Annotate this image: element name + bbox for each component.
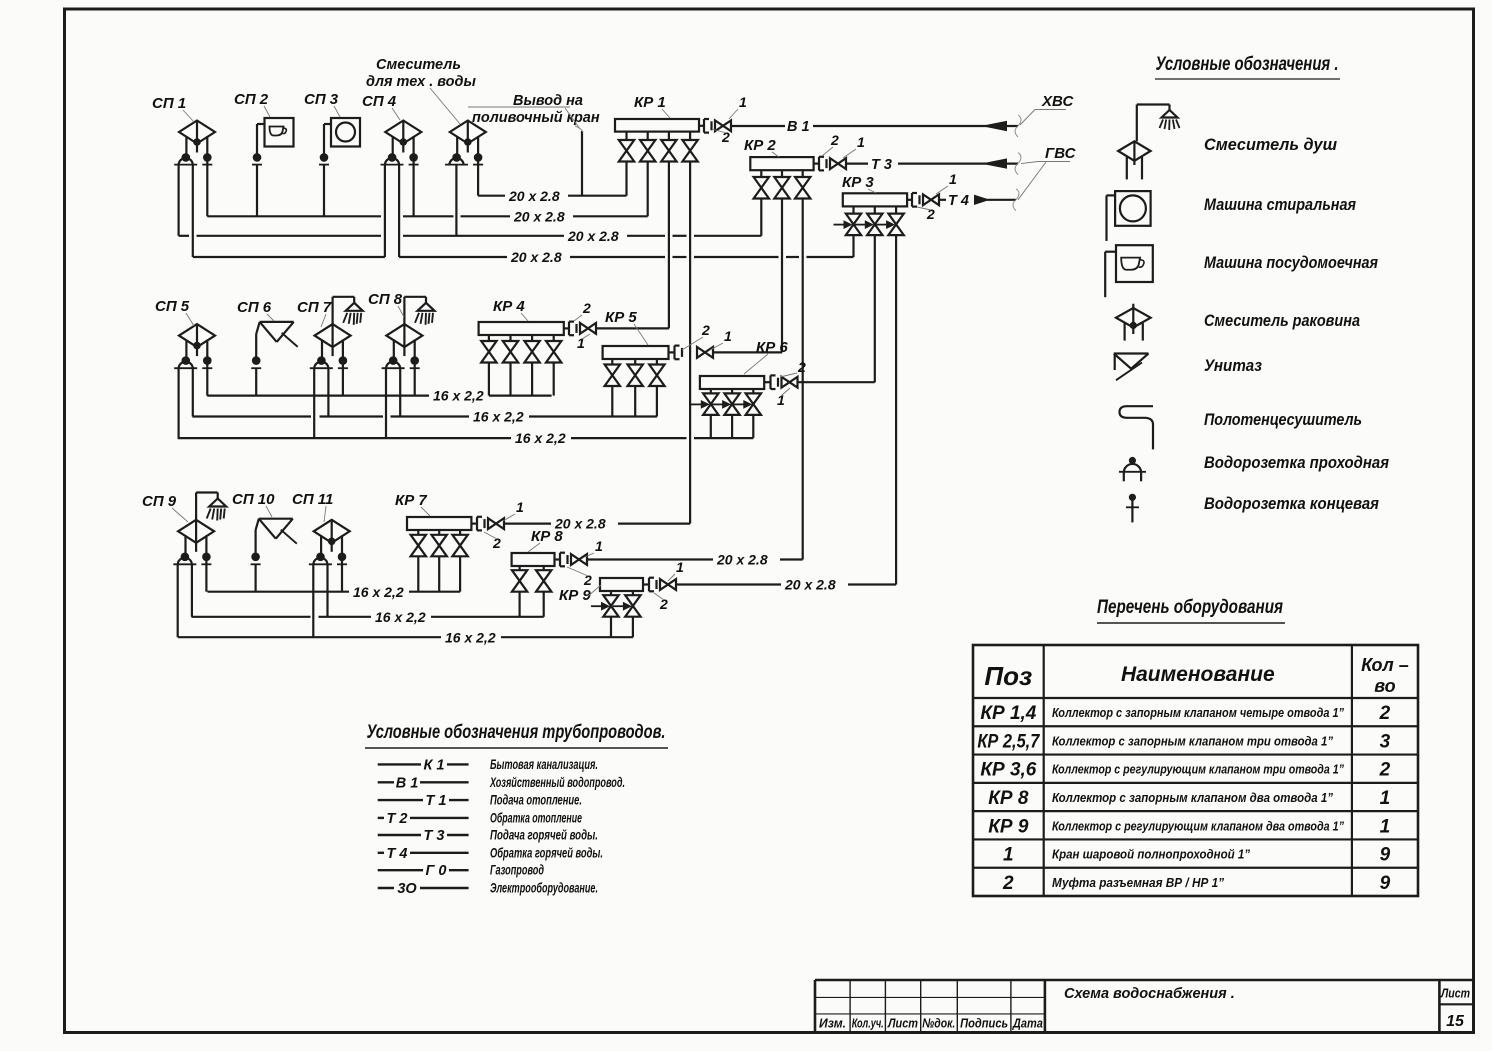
break mark T4: [1013, 189, 1019, 211]
svg-text:Смеситель: Смеситель: [376, 57, 461, 73]
fixture technical water mixer: [450, 121, 486, 144]
fixture SP5 sink mixer: [179, 324, 215, 347]
KR9 stubs to run3: [610, 617, 612, 637]
svg-text:16 х 2,2: 16 х 2,2: [515, 430, 566, 446]
pipe run 3 mid 16x2,2: [178, 437, 511, 439]
collector KR2: [750, 157, 813, 170]
riser KR1 stub1 to run1: [625, 162, 627, 196]
pipe run 1 bottom 16x2,2: [208, 591, 350, 593]
coupling 2 at KR5: [669, 351, 675, 353]
svg-text:Машина посудомоечная: Машина посудомоечная: [1204, 253, 1378, 272]
svg-text:Смеситель душ: Смеситель душ: [1204, 135, 1337, 154]
pipe SP3 to run2: [323, 165, 325, 217]
svg-text:Хозяйственный водопровод.: Хозяйственный водопровод.: [489, 775, 625, 790]
svg-text:В 1: В 1: [396, 775, 419, 791]
svg-text:20 х 2.8: 20 х 2.8: [508, 188, 560, 204]
svg-text:КР 4: КР 4: [493, 298, 525, 315]
svg-text:ХВС: ХВС: [1041, 93, 1074, 110]
svg-text:1: 1: [1380, 788, 1391, 809]
pipe SP10 to run1: [255, 564, 257, 591]
break mark B1: [1015, 115, 1021, 137]
svg-text:СП 11: СП 11: [292, 491, 333, 508]
KR9 feed line 20x2.8: [677, 583, 781, 585]
svg-text:20 х 2.8: 20 х 2.8: [513, 208, 565, 224]
svg-text:2: 2: [926, 206, 935, 222]
KR7 feed line 20x2.8: [505, 522, 551, 524]
svg-text:Машина стиральная: Машина стиральная: [1204, 195, 1356, 214]
fixture SP11 sink mixer: [314, 520, 350, 543]
svg-text:Полотенцесушитель: Полотенцесушитель: [1204, 410, 1362, 429]
svg-text:КР 3: КР 3: [842, 174, 874, 191]
legend icon water outlet pass-through: [1129, 457, 1136, 464]
svg-text:3О: 3О: [397, 881, 417, 897]
svg-text:Изм.: Изм.: [819, 1016, 846, 1031]
riser KR2 stub1 to run3: [760, 199, 762, 236]
svg-text:2: 2: [830, 132, 839, 148]
svg-text:1: 1: [676, 559, 684, 575]
break mark T3: [1015, 153, 1021, 175]
svg-text:Обратка отопление: Обратка отопление: [490, 810, 582, 825]
pipe SP8 right to run1: [414, 361, 416, 396]
legend icon shower mixer: [1136, 105, 1138, 142]
collector KR6: [700, 376, 764, 389]
svg-text:Подача горячей воды.: Подача горячей воды.: [490, 828, 598, 843]
ball valve 1 at KR8: [571, 554, 579, 565]
svg-text:9: 9: [1380, 873, 1391, 894]
svg-text:СП 7: СП 7: [297, 299, 332, 316]
svg-text:КР 8: КР 8: [531, 528, 563, 545]
svg-text:Т 1: Т 1: [426, 793, 447, 809]
ball valve 1 at KR5: [697, 347, 705, 358]
svg-text:1: 1: [595, 538, 603, 554]
fixture SP3 washing machine: [331, 118, 360, 147]
svg-text:2: 2: [659, 596, 668, 612]
pipe type 3О: [378, 887, 394, 889]
ball valve 1 at KR7: [488, 518, 496, 529]
svg-text:Перечень оборудования: Перечень оборудования: [1097, 597, 1283, 618]
pipe B1 with arrow to HVS: [732, 125, 785, 127]
pipe SP1 arch to run3: [178, 165, 180, 236]
pipe run 1 mid 16x2,2: [207, 395, 429, 397]
svg-text:1: 1: [1380, 816, 1391, 837]
pipe SP9 right to run1: [205, 557, 207, 592]
pipe tech mixer left to run3: [455, 165, 457, 236]
coupling 2 at KR1: [698, 125, 704, 127]
svg-text:Т 4: Т 4: [948, 193, 969, 209]
pipe SP1 arch to run4: [192, 165, 194, 257]
riser KR2 stub2 to KR5 feed: [781, 199, 783, 352]
svg-text:20 х 2.8: 20 х 2.8: [567, 228, 619, 244]
svg-text:Лист: Лист: [1440, 986, 1470, 1001]
svg-text:Кол –: Кол –: [1361, 655, 1409, 675]
svg-text:Водорозетка проходная: Водорозетка проходная: [1204, 453, 1389, 472]
svg-text:Унитаз: Унитаз: [1204, 356, 1262, 375]
legend icon water outlet end: [1129, 494, 1136, 501]
KR8 stubs to run2: [518, 592, 520, 617]
KR8 feed line 20x2.8: [588, 558, 713, 560]
coupling 2 at KR2: [813, 163, 819, 165]
pipe SP8 arch to run2: [399, 368, 401, 416]
pipe T4 with outgoing arrow: [940, 199, 946, 201]
fixture SP1 sink mixer: [179, 121, 215, 144]
svg-text:2: 2: [1002, 873, 1014, 894]
svg-text:КР 2,5,7: КР 2,5,7: [977, 731, 1040, 752]
svg-text:Наименование: Наименование: [1121, 663, 1275, 686]
legend icon washing machine: [1115, 191, 1151, 226]
sheet box: [1438, 980, 1441, 1032]
pipe run 2 mid 16x2,2: [192, 415, 311, 417]
svg-text:16 х 2,2: 16 х 2,2: [445, 629, 496, 645]
collector KR1: [615, 119, 699, 132]
svg-text:КР 5: КР 5: [605, 309, 637, 326]
pipe type Т2: [378, 817, 384, 819]
svg-text:2: 2: [582, 300, 591, 316]
legend icon towel dryer: [1120, 406, 1154, 449]
legend icon sink mixer: [1116, 308, 1151, 328]
pipe SP4 arch to run4 b: [398, 165, 400, 257]
riser KR3 stub2 to KR6 feed: [874, 236, 876, 383]
coupling 2 at KR3: [906, 199, 912, 201]
svg-text:Обратка горячей воды.: Обратка горячей воды.: [490, 845, 603, 860]
svg-text:Условные обозначения трубопров: Условные обозначения трубопроводов.: [367, 722, 666, 743]
ball valve 1 at KR9: [660, 579, 668, 590]
fixture SP9 shower mixer: [178, 520, 214, 543]
svg-text:во: во: [1374, 676, 1395, 696]
fixture SP2 dishwasher: [265, 118, 294, 147]
legend icon toilet: [1114, 352, 1149, 354]
collector KR4: [479, 322, 564, 335]
ball valve 1 at KR2: [830, 158, 838, 169]
svg-text:2: 2: [721, 129, 730, 145]
svg-text:Газопровод: Газопровод: [490, 863, 544, 878]
svg-text:Коллектор с запорным клапаном: Коллектор с запорным клапаном четыре отв…: [1052, 705, 1344, 720]
pipe type Г0: [378, 869, 423, 871]
ball valve 1 at KR4: [580, 323, 588, 334]
svg-text:16 х 2,2: 16 х 2,2: [433, 388, 484, 404]
KR5 feed line: [714, 351, 782, 353]
svg-text:В 1: В 1: [787, 119, 810, 135]
svg-text:3: 3: [1380, 731, 1391, 752]
coupling 2 at KR4: [563, 327, 569, 329]
equipment table: [973, 645, 1418, 896]
svg-text:1: 1: [739, 94, 747, 110]
svg-text:20 х 2.8: 20 х 2.8: [716, 552, 768, 568]
pipe SP7 arch to run2: [327, 368, 329, 416]
pipe run 2 bottom 16x2,2: [192, 616, 311, 618]
svg-text:№док.: №док.: [922, 1016, 955, 1031]
riser KR1 stub2 to run2: [647, 162, 649, 216]
collector KR5: [603, 346, 669, 359]
svg-text:для тех . воды: для тех . воды: [366, 74, 476, 90]
svg-text:Водорозетка концевая: Водорозетка концевая: [1204, 494, 1379, 513]
fixture SP10 toilet: [259, 518, 293, 520]
pipe run 2 top 20x2.8: [207, 215, 381, 217]
pipe type К1: [378, 763, 421, 765]
fixture SP7 shower mixer: [315, 324, 351, 347]
KR7 stubs to run1: [417, 557, 419, 592]
svg-text:1: 1: [1003, 845, 1014, 866]
svg-text:20 х 2.8: 20 х 2.8: [784, 577, 836, 593]
pipe SP8 arch to run3: [385, 368, 387, 438]
KR4 stubs to run1: [488, 363, 490, 396]
riser KR1 stub3 to KR4 feed: [668, 162, 670, 328]
pipe SP9 arch to run2: [191, 564, 193, 617]
svg-text:Дата: Дата: [1012, 1016, 1043, 1031]
pipe SP7 arch to run3: [313, 368, 315, 438]
ball valve 1 at KR3: [923, 194, 931, 205]
pipe tech mixer right to run1: [477, 157, 479, 195]
svg-text:КР 2: КР 2: [744, 137, 776, 154]
svg-text:СП 3: СП 3: [304, 91, 339, 108]
svg-text:СП 10: СП 10: [232, 491, 275, 508]
pipe SP4 right to run2: [413, 157, 415, 216]
svg-text:СП 6: СП 6: [237, 299, 272, 316]
pipe SP9 arch to run3: [177, 564, 179, 637]
coupling 2 at KR8: [554, 558, 560, 560]
collector KR8: [512, 553, 555, 566]
coupling 2 at KR9: [643, 583, 649, 585]
svg-text:Т 3: Т 3: [424, 828, 445, 844]
fixture SP4 sink mixer: [385, 121, 421, 144]
KR6 stubs to run3: [710, 415, 712, 438]
ball valve 1 at KR1: [715, 120, 723, 131]
svg-text:Лист: Лист: [887, 1016, 918, 1031]
svg-text:1: 1: [724, 328, 732, 344]
svg-text:2: 2: [701, 322, 710, 338]
svg-text:Г 0: Г 0: [426, 863, 447, 879]
svg-text:КР 8: КР 8: [988, 788, 1029, 809]
pipe SP11 arch to run3: [312, 564, 314, 637]
pipe SP6 to run1: [255, 368, 257, 395]
svg-text:9: 9: [1380, 845, 1391, 866]
riser KR3 stub1 to run4: [852, 236, 854, 257]
svg-text:2: 2: [797, 359, 806, 375]
svg-text:СП 8: СП 8: [368, 291, 403, 308]
svg-text:Т 3: Т 3: [871, 157, 892, 173]
riser KR3 stub3 to KR9 feed: [895, 236, 897, 585]
svg-text:СП 4: СП 4: [362, 93, 397, 110]
svg-text:1: 1: [949, 171, 957, 187]
svg-text:Коллектор с запорным клапаном: Коллектор с запорным клапаном три отвода…: [1052, 733, 1333, 748]
svg-text:Коллектор с регулирующим клапа: Коллектор с регулирующим клапаном три от…: [1052, 762, 1344, 777]
riser KR1 stub4 to KR7 feed: [689, 162, 691, 524]
svg-text:Коллектор с регулирующим клапа: Коллектор с регулирующим клапаном два от…: [1052, 818, 1344, 833]
pipe SP5 arch to run2: [192, 368, 194, 416]
svg-text:Коллектор с запорным клапаном: Коллектор с запорным клапаном два отвода…: [1052, 790, 1333, 805]
svg-text:СП 5: СП 5: [155, 298, 190, 315]
pipe T3 with arrow to GVS: [847, 163, 868, 165]
title block: [815, 979, 1474, 982]
svg-text:Электрооборудование.: Электрооборудование.: [490, 881, 598, 896]
svg-text:КР 9: КР 9: [559, 587, 591, 604]
svg-text:20 х 2.8: 20 х 2.8: [510, 249, 562, 265]
svg-text:Т 2: Т 2: [387, 811, 408, 827]
coupling 2 at KR6: [765, 381, 771, 383]
KR6 feed line: [799, 381, 875, 383]
svg-text:Кол.уч.: Кол.уч.: [852, 1016, 884, 1031]
svg-text:16 х 2,2: 16 х 2,2: [375, 609, 426, 625]
pipe SP11 arch to run2: [326, 564, 328, 617]
legend icon dishwasher: [1116, 245, 1153, 282]
svg-text:поливочный кран: поливочный кран: [472, 110, 600, 126]
riser KR2 stub3 to KR8 feed: [802, 199, 804, 560]
fixture SP6 toilet: [260, 321, 294, 323]
svg-text:Кран шаровой полнопроходной 1: Кран шаровой полнопроходной 1”: [1052, 847, 1250, 862]
svg-text:Условные обозначения .: Условные обозначения .: [1156, 54, 1339, 75]
svg-text:Поз: Поз: [984, 661, 1032, 691]
svg-text:15: 15: [1446, 1013, 1465, 1030]
svg-text:1: 1: [777, 392, 785, 408]
svg-text:2: 2: [1379, 760, 1391, 781]
pipe SP11 right to run1: [341, 557, 343, 592]
svg-text:Подача отопление.: Подача отопление.: [490, 793, 582, 808]
collector KR3: [843, 193, 907, 206]
svg-text:Бытовая канализация.: Бытовая канализация.: [490, 757, 598, 772]
svg-text:КР 6: КР 6: [756, 339, 788, 356]
svg-text:Подпись: Подпись: [960, 1016, 1008, 1031]
svg-text:16 х 2,2: 16 х 2,2: [353, 584, 404, 600]
svg-text:1: 1: [857, 134, 865, 150]
svg-text:16 х 2,2: 16 х 2,2: [473, 409, 524, 425]
KR4 feed line: [597, 327, 669, 329]
pipe type В1: [378, 781, 394, 783]
pipe run 1 top 20x2.8: [478, 195, 505, 197]
pipe run 3 top 20x2.8: [179, 235, 189, 237]
svg-text:КР 1: КР 1: [634, 94, 666, 111]
pipe type Т1: [378, 799, 423, 801]
ball valve 1 at KR6: [782, 377, 790, 388]
garden tap outlet: [581, 131, 583, 196]
svg-text:Т 4: Т 4: [387, 846, 408, 862]
pipe run 3 bottom 16x2,2: [178, 636, 441, 638]
pipe SP5 right to run1: [206, 361, 208, 396]
svg-text:СП 9: СП 9: [142, 493, 177, 510]
svg-text:Схема водоснабжения .: Схема водоснабжения .: [1064, 986, 1235, 1002]
svg-text:Смеситель раковина: Смеситель раковина: [1204, 311, 1360, 330]
svg-text:СП 1: СП 1: [152, 95, 186, 112]
svg-text:КР 9: КР 9: [988, 816, 1029, 837]
fixture SP8 shower mixer: [386, 324, 422, 347]
svg-text:КР 3,6: КР 3,6: [980, 760, 1036, 781]
pipe type Т3: [378, 834, 421, 836]
pipe SP1 right to run2: [206, 157, 208, 216]
pipe SP5 arch to run3: [178, 368, 180, 438]
svg-text:КР 1,4: КР 1,4: [980, 703, 1036, 724]
collector KR7: [407, 517, 471, 530]
pipe SP4 arch to run4 a: [384, 165, 386, 257]
pipe run 4 top 20x2.8 (loop through SP4): [193, 256, 385, 258]
pipe SP7 right to run1: [342, 361, 344, 396]
coupling 2 at KR7: [471, 522, 477, 524]
svg-text:Муфта разъемная ВР / НР 1”: Муфта разъемная ВР / НР 1”: [1052, 875, 1224, 890]
svg-text:1: 1: [516, 499, 524, 515]
collector KR9: [600, 578, 643, 591]
KR5 stubs to run2: [611, 387, 613, 417]
svg-text:2: 2: [1379, 703, 1391, 724]
svg-text:ГВС: ГВС: [1045, 145, 1077, 162]
svg-text:КР 7: КР 7: [395, 492, 427, 509]
pipe type Т4: [378, 852, 384, 854]
pipe SP2 to run2: [256, 165, 258, 217]
svg-text:СП 2: СП 2: [234, 91, 269, 108]
svg-text:К 1: К 1: [423, 757, 444, 773]
